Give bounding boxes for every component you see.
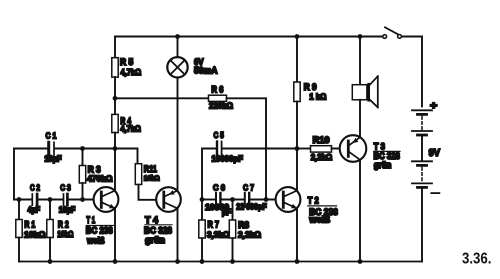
svg-text:50mA: 50mA [194,65,218,75]
wire C3 to T1 base [69,199,102,201]
lamp 6V 50mA [167,37,218,191]
node C5/C6/R7 junction [200,197,205,202]
svg-text:9V: 9V [429,148,441,159]
node speaker top junction [358,34,363,39]
capacitor C7 [236,183,267,212]
svg-text:+: + [430,100,437,112]
svg-text:R 2: R 2 [58,219,69,229]
resistor R5 [112,58,118,77]
svg-text:C 6: C 6 [213,183,225,193]
transistor T3 [340,135,400,170]
svg-text:4,7kΩ: 4,7kΩ [120,124,141,133]
wire C7 to T2 base [250,199,283,201]
wire T1 emitter lead [114,208,116,261]
wire R9 top lead [296,37,298,83]
svg-text:4µF: 4µF [28,205,41,214]
svg-text:grün: grün [374,160,392,170]
svg-text:3,3kΩ: 3,3kΩ [207,231,230,240]
svg-text:R 3: R 3 [88,164,101,174]
svg-text:10kΩ: 10kΩ [24,230,46,239]
wire R5 top lead [114,37,116,59]
wire R6 right to T2 base branch [227,98,267,199]
svg-text:2,2kΩ: 2,2kΩ [238,231,261,240]
svg-text:4,7kΩ: 4,7kΩ [121,68,142,77]
svg-text:T 2: T 2 [308,195,319,205]
svg-text:weiß: weiß [86,235,105,245]
node R8 top junction [230,197,235,202]
resistor R6 [209,85,234,111]
wire battery top lead [421,37,423,107]
node R3 bottom junction [80,197,85,202]
svg-text:R10: R10 [313,135,330,145]
svg-text:C 2: C 2 [30,184,40,193]
wire left vertical [13,149,15,200]
node lamp top junction [175,34,180,39]
resistor R10 [297,135,348,162]
wire C2 to C3 [38,199,62,201]
svg-text:10000pF: 10000pF [212,155,244,164]
svg-text:220kΩ: 220kΩ [209,101,233,110]
wire T4 collector lead [177,208,179,261]
wire T1 collector lead [114,149,116,191]
svg-text:10µF: 10µF [59,205,76,214]
svg-text:C 5: C 5 [214,130,225,140]
svg-text:2,2kΩ: 2,2kΩ [311,153,333,162]
wire C6 to C7 [222,199,244,201]
wire C1 to R11 corner [55,149,138,164]
transistor T4 [144,187,181,245]
resistor R2 [47,200,74,262]
svg-text:1 kΩ: 1 kΩ [309,92,326,101]
resistor R8 [229,200,261,262]
resistor R7 [199,200,230,262]
node R2 top junction [48,197,53,202]
capacitor C1 [45,130,62,163]
svg-text:T 4: T 4 [145,215,158,225]
node R9 top junction [295,34,300,39]
svg-text:R 7: R 7 [208,219,220,229]
svg-text:10kΩ: 10kΩ [57,230,73,239]
wire T3 collector lead [359,160,361,262]
battery 9V [412,100,440,261]
svg-text:pF: pF [222,208,231,217]
wire bottom rail [19,261,422,263]
svg-text:C 1: C 1 [46,130,57,140]
svg-text:C 7: C 7 [243,183,254,193]
svg-text:weiß: weiß [308,214,330,224]
node T2 emitter bottom [295,259,300,264]
svg-text:3.36.: 3.36. [462,251,492,268]
wire top rail left [115,36,383,38]
transistor T2 [276,187,338,224]
node R7 bottom [200,259,205,264]
svg-text:R 5: R 5 [120,57,133,67]
node T1 emitter bottom [113,259,118,264]
svg-text:T 1: T 1 [86,215,95,225]
capacitor C2 [28,184,41,215]
capacitor C6 [202,183,231,217]
wire C2 row left [14,199,31,201]
svg-text:R 9: R 9 [304,82,317,92]
svg-text:R 6: R 6 [211,85,223,95]
svg-text:R 1: R 1 [24,219,35,229]
node T3 collector bottom [358,259,363,264]
transistor T1 [86,187,119,245]
svg-text:R8: R8 [238,220,249,230]
speaker LS [352,37,378,138]
svg-text:T 3: T 3 [374,141,385,151]
wire R4 bottom lead [114,133,116,149]
wire T2 emitter lead [296,208,298,261]
node R5/R4/R6 junction [113,96,118,101]
resistor R1 [16,200,46,262]
node R8 bottom [230,259,235,264]
resistor R11 [135,164,164,200]
svg-text:10kΩ: 10kΩ [144,173,160,182]
node R1 top junction [17,197,22,202]
resistor R3 [79,149,113,200]
svg-text:grün: grün [145,235,165,245]
node R4/T1 collector junction [113,146,118,151]
switch S1 [383,27,402,38]
svg-text:BC 238: BC 238 [86,226,113,236]
capacitor C5 [202,130,297,199]
svg-text:470kΩ: 470kΩ [87,174,113,183]
node C5/T2 collector junction [295,146,300,151]
svg-text:C 3: C 3 [60,184,71,193]
resistor R9 [294,82,327,102]
node T4 collector bottom [175,259,180,264]
svg-text:22 000pF: 22 000pF [236,202,267,211]
wire C1 row left [14,148,47,150]
wire rail y98 [115,97,209,99]
svg-text:BC 328: BC 328 [144,226,172,236]
node R6 branch/T2 base junction [264,197,269,202]
wire top rail right [402,36,422,38]
capacitor C3 [59,184,76,215]
svg-text:10µF: 10µF [45,155,62,164]
node R3 top junction [80,146,85,151]
wire R5 to R4 [114,77,116,114]
node R2 bottom [48,259,53,264]
resistor R4 [112,114,118,132]
wire R9 to T2 collector [296,102,298,191]
